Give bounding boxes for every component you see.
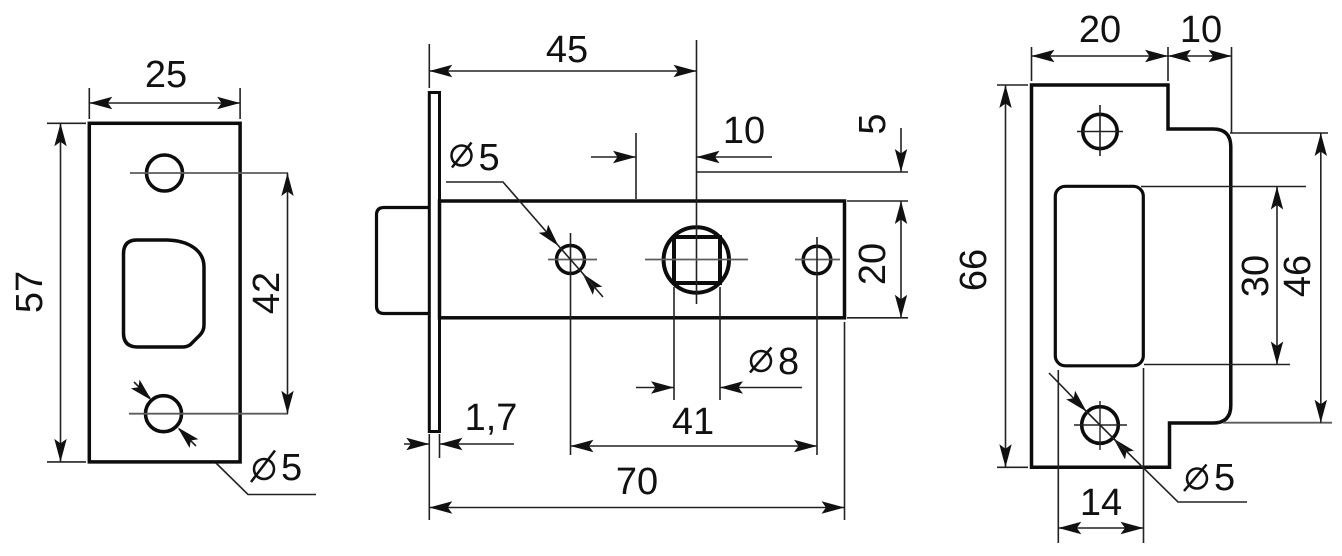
dim 20 top bbox=[1032, 9, 1169, 81]
svg-text:41: 41 bbox=[672, 401, 714, 443]
spindle square bbox=[674, 237, 720, 283]
dim 10 bbox=[591, 110, 772, 199]
spindle circle bbox=[664, 227, 729, 292]
top hole bbox=[147, 155, 183, 191]
faceplate edge-on bbox=[429, 93, 439, 432]
dim 30 bbox=[1141, 187, 1306, 365]
faceplate outline bbox=[89, 123, 240, 462]
svg-text:20: 20 bbox=[852, 243, 894, 285]
top hole bbox=[1083, 114, 1117, 148]
svg-text:45: 45 bbox=[546, 29, 588, 71]
horizontal centerline dashes bbox=[548, 259, 597, 261]
dim 25 bbox=[89, 54, 240, 119]
svg-text:20: 20 bbox=[1079, 9, 1121, 51]
svg-text:14: 14 bbox=[1080, 482, 1122, 524]
dim 57 bbox=[9, 123, 86, 462]
svg-text:5: 5 bbox=[1214, 457, 1235, 499]
dim 70 bbox=[429, 322, 844, 520]
dim 10 top bbox=[1168, 9, 1232, 133]
dim 45 bbox=[429, 29, 696, 88]
bottom hole bbox=[146, 396, 182, 432]
svg-text:30: 30 bbox=[1235, 255, 1277, 297]
svg-text:42: 42 bbox=[246, 272, 288, 314]
dim 46 bbox=[1223, 133, 1332, 423]
svg-text:8: 8 bbox=[778, 341, 799, 383]
leader dia5 right bbox=[1049, 373, 1247, 502]
body bbox=[440, 201, 845, 318]
svg-text:70: 70 bbox=[616, 461, 658, 503]
ext small hole bbox=[570, 233, 572, 455]
dim 5 and 20 right bbox=[697, 113, 908, 317]
leader dia5 bbox=[216, 447, 316, 495]
svg-text:1,7: 1,7 bbox=[465, 397, 518, 439]
dia symbol bbox=[254, 459, 274, 479]
dim 66 bbox=[953, 85, 1028, 467]
vertical centerline spindle bbox=[696, 40, 698, 304]
svg-text:66: 66 bbox=[953, 249, 995, 291]
centerline top hole bbox=[130, 172, 288, 174]
bolt bbox=[377, 208, 431, 314]
ext right hole bbox=[816, 237, 818, 455]
cutout window bbox=[1055, 186, 1143, 365]
svg-text:10: 10 bbox=[723, 110, 765, 152]
dim 14 bbox=[1058, 368, 1143, 543]
dim 1,7 bbox=[404, 397, 517, 520]
dim dia8 bbox=[636, 287, 802, 400]
svg-text:46: 46 bbox=[1277, 255, 1319, 297]
svg-text:57: 57 bbox=[9, 271, 51, 313]
centerline bottom hole bbox=[129, 413, 288, 415]
bottom hole bbox=[1082, 407, 1119, 444]
latch cutout bbox=[124, 240, 205, 347]
svg-text:10: 10 bbox=[1180, 9, 1222, 51]
small hole bbox=[557, 246, 585, 274]
dim 41 bbox=[571, 401, 818, 452]
outline bbox=[1032, 85, 1231, 467]
svg-text:5: 5 bbox=[479, 137, 500, 179]
hole diameter arrows bbox=[131, 380, 198, 448]
dim 42 bbox=[246, 173, 294, 414]
right hole bbox=[803, 246, 831, 274]
svg-text:5: 5 bbox=[281, 447, 302, 489]
label dia5 mid bbox=[446, 137, 603, 297]
svg-text:5: 5 bbox=[852, 113, 894, 134]
svg-text:25: 25 bbox=[145, 54, 187, 96]
